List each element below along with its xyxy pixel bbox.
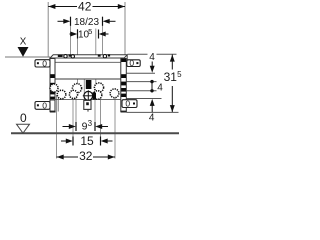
dimension 18/23 right outside arrow: [109, 20, 116, 22]
svg-text:0: 0: [125, 99, 130, 109]
top screw circle right: [103, 55, 106, 58]
pipe clamp gear 5: [94, 83, 103, 92]
drain cross vertical: [87, 90, 89, 101]
dimension 31.5 down arrow: [170, 105, 175, 112]
right upright stud 2: [121, 82, 126, 86]
dimension 4 middle dot top: [150, 80, 153, 83]
dot in box top right: [136, 62, 138, 64]
dot in box bottom right: [133, 103, 135, 105]
top screw circle left2: [71, 55, 74, 58]
right stub line bottom: [127, 111, 179, 113]
drain cross horizontal: [83, 95, 94, 97]
dimension 9.3 left outside arrow: [63, 126, 70, 128]
svg-text:5: 5: [177, 70, 182, 79]
right stub line top: [128, 53, 148, 55]
extension line right of dim 15: [100, 98, 102, 143]
right upright stud 3: [121, 88, 126, 92]
svg-text:0: 0: [20, 111, 27, 125]
body rail top face: [50, 55, 127, 58]
right upright stud 4: [121, 94, 126, 97]
dimension 10.5 right outside arrow: [105, 33, 109, 35]
top clip dash left: [58, 55, 63, 57]
drain pipe black stub: [86, 80, 92, 89]
svg-text:4: 4: [149, 113, 155, 124]
svg-text:0: 0: [42, 100, 47, 110]
dimension 10.5 tick left: [77, 30, 79, 39]
extension line left of dim 42: [47, 2, 49, 58]
dimension 42 right arrow: [118, 4, 125, 9]
svg-text:3: 3: [88, 119, 93, 128]
right stub line L3: [127, 81, 157, 83]
right upright stud top: [121, 59, 126, 62]
marker 0 open triangle: [17, 124, 30, 133]
center extension line drain: [83, 63, 85, 101]
right upright stud 1: [121, 74, 126, 78]
marker X filled triangle: [18, 47, 29, 57]
fastening box bottom left: [35, 102, 50, 110]
left upright stud 1: [50, 74, 54, 78]
right upright rail: [121, 59, 127, 112]
svg-text:15: 15: [80, 134, 94, 148]
dimension 4 middle connector: [151, 82, 153, 91]
dimension 15 right outside arrow: [107, 140, 113, 142]
extension line left of dim 10.5: [77, 29, 79, 88]
pipe clamp gear 4: [69, 90, 77, 98]
fastening box top left: [35, 60, 50, 67]
black clamp wedge: [93, 92, 96, 100]
right stub line L4: [127, 90, 157, 92]
dimension 9.3 tick right: [94, 122, 96, 131]
svg-text:4: 4: [157, 83, 163, 94]
drain socket dash: [86, 102, 89, 105]
dimension 4 middle dot bottom: [150, 89, 153, 92]
top clip nub right1: [98, 54, 101, 56]
extension line right of dim 42: [124, 2, 126, 55]
floor line: [11, 132, 179, 134]
left upright rail: [50, 59, 55, 112]
dimension 10.5 tick right: [98, 30, 100, 39]
dimension 15 tick right: [100, 137, 102, 146]
dimension 31.5 up arrow: [170, 55, 175, 62]
pipe clamp gear 1: [50, 84, 58, 92]
dimension 32 line: [57, 156, 79, 158]
left upright stud 3: [50, 91, 54, 94]
top clip nub left: [69, 54, 72, 56]
right upright foot: [121, 111, 127, 113]
fastening box bottom right: [122, 100, 137, 108]
top clip nub right2: [108, 54, 110, 56]
dimension 42 line: [48, 6, 77, 8]
pipe clamp gear 3: [72, 84, 81, 93]
dimension 18/23 left outside arrow: [58, 20, 65, 22]
body rail front face: [50, 58, 124, 79]
left upright foot: [50, 111, 56, 113]
left upright stud 2: [50, 83, 54, 87]
right stub line L4b: [127, 98, 162, 100]
dimension 15 left outside arrow: [61, 140, 67, 142]
drain socket box: [84, 100, 91, 109]
drain crosshair circle: [84, 91, 93, 100]
svg-text:18/23: 18/23: [74, 17, 99, 28]
svg-text:X: X: [20, 36, 27, 47]
dimension 10.5 left outside arrow: [70, 33, 72, 35]
left upright side edge: [57, 99, 59, 112]
svg-text:32: 32: [79, 149, 93, 163]
right stub line L2: [127, 72, 156, 74]
extension line right of dim 18/23: [102, 17, 104, 57]
svg-text:5: 5: [88, 27, 92, 36]
body rail flange line: [50, 61, 124, 63]
dimension 4 bottom arrow: [150, 99, 155, 106]
dot in box bottom left: [37, 104, 39, 106]
extension line left of dim 9.3: [75, 93, 77, 129]
extension line right of dim 10.5: [95, 29, 97, 89]
body rail back right edge: [126, 55, 128, 61]
fastening box top right: [127, 60, 140, 67]
dimension 15 tick left: [72, 137, 74, 146]
top screw circle left1: [64, 55, 67, 58]
dimension 18/23 tick right: [102, 17, 104, 26]
extension line left of dim 32: [56, 95, 58, 159]
svg-text:0: 0: [42, 58, 47, 68]
pipe clamp gear 6: [93, 91, 102, 100]
extension line left of dim 15: [72, 93, 74, 143]
dimension 31.5 vertical line: [171, 55, 173, 70]
dimension 18/23 tick left: [70, 17, 72, 26]
dimension 9.3 tick left: [75, 122, 77, 131]
dot in box top left: [37, 62, 39, 64]
svg-text:31: 31: [164, 70, 178, 84]
clamp connecting bar: [51, 99, 121, 101]
svg-text:42: 42: [78, 0, 92, 14]
pipe clamp gear 7: [110, 89, 119, 98]
extension line right of dim 9.3: [94, 93, 96, 129]
dimension 32 left arrow: [57, 155, 64, 160]
dimension 32 right arrow: [108, 155, 115, 160]
pipe clamp gear 2: [57, 90, 66, 99]
dimension 42 left arrow: [48, 4, 55, 9]
left upright stud 4: [50, 97, 54, 101]
dimension 4 top arrow: [151, 62, 153, 68]
dimension 9.3 right outside arrow: [101, 126, 108, 128]
extension line left of dim 18/23: [70, 17, 72, 65]
svg-text:4: 4: [149, 52, 155, 63]
level line X: [5, 56, 50, 58]
svg-text:0: 0: [129, 58, 134, 68]
extension line right of dim 32: [114, 97, 116, 159]
